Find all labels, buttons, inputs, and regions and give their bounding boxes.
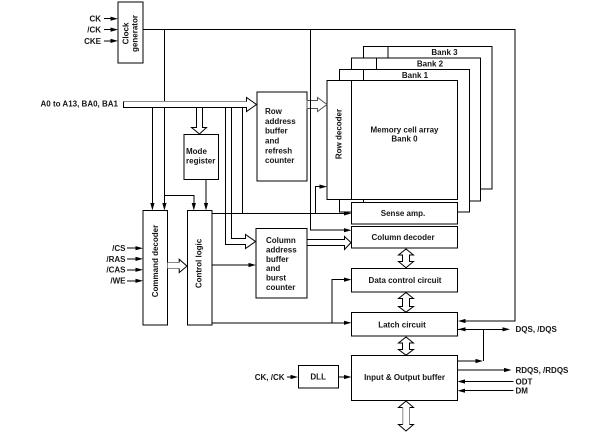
wire: mode register output to control logic	[204, 180, 208, 211]
svg-text:/CS: /CS	[112, 244, 126, 253]
svg-text:address: address	[266, 245, 297, 254]
svg-text:burst: burst	[266, 274, 286, 283]
svg-text:/CAS: /CAS	[106, 266, 126, 275]
svg-text:CK, /CK: CK, /CK	[255, 373, 285, 382]
svg-text:address: address	[265, 117, 296, 126]
bank 3 outline	[364, 47, 493, 190]
wire: CK input arrow	[104, 17, 118, 21]
svg-text:Column: Column	[266, 236, 296, 245]
wire: DQS bidirectional line at latch circuit	[458, 327, 510, 331]
svg-text:counter: counter	[266, 283, 295, 292]
svg-text:/RAS: /RAS	[106, 255, 126, 264]
wire: DLL to input output buffer	[339, 375, 352, 379]
svg-text:Row decoder: Row decoder	[335, 109, 344, 159]
bank 2 outline	[352, 58, 481, 201]
svg-text:Clock: Clock	[122, 22, 131, 44]
wire: address line down to command decoder	[150, 107, 154, 210]
svg-text:register: register	[186, 157, 215, 166]
bus: double open arrow data control circuit to latch circuit	[399, 293, 414, 313]
svg-text:generator: generator	[131, 15, 140, 52]
wire: control logic to sense amp with branch to row decoder	[212, 185, 352, 216]
svg-text:CK: CK	[89, 15, 101, 24]
svg-text:Control logic: Control logic	[195, 238, 204, 288]
bus: fat arrow column address buffer to column decoder	[307, 237, 351, 250]
svg-text:CKE: CKE	[84, 37, 102, 46]
svg-text:DLL: DLL	[310, 372, 326, 381]
svg-text:Input & Output buffer: Input & Output buffer	[364, 373, 445, 382]
block: command decoder	[143, 211, 168, 326]
wire: /WE input arrow	[127, 279, 143, 283]
svg-text:Column decoder: Column decoder	[371, 233, 434, 242]
wire: clock drop to command decoder (upper part above address bus)	[163, 29, 165, 101]
wire: branch from DQS line down to input output buffer	[458, 329, 484, 363]
block: memory cell array bank 0	[352, 81, 458, 200]
block: row decoder	[327, 81, 352, 200]
bus: address bus A0 to A13 BA0 BA1 (open arrow into row address buffer)	[124, 98, 257, 112]
block: latch circuit	[352, 313, 458, 337]
svg-text:Bank 0: Bank 0	[391, 134, 418, 143]
block: clock generator	[118, 2, 143, 63]
svg-text:Bank 1: Bank 1	[402, 71, 429, 80]
svg-text:/CK: /CK	[87, 26, 101, 35]
svg-text:Data control circuit: Data control circuit	[369, 276, 442, 285]
block: control logic	[188, 211, 213, 326]
svg-text:RDQS, /RDQS: RDQS, /RDQS	[516, 366, 570, 375]
block: mode register	[184, 135, 219, 180]
svg-text:buffer: buffer	[266, 255, 289, 264]
wire: address drop joining control logic to sense amp line	[241, 107, 243, 213]
block: DLL	[299, 366, 339, 389]
svg-text:buffer: buffer	[265, 127, 288, 136]
svg-text:/WE: /WE	[110, 277, 126, 286]
wire: CK /CK input to DLL	[287, 375, 298, 379]
wire: DM input arrow	[458, 389, 514, 393]
wire: /CK input arrow	[104, 28, 118, 32]
svg-text:Memory cell array: Memory cell array	[370, 125, 439, 134]
wire: control logic bottom output to data control circuit and latch circuit	[212, 278, 352, 325]
bus: fat arrow from address bus down into mode register	[192, 108, 207, 135]
svg-text:and: and	[266, 264, 280, 273]
bus: double open arrow column decoder to data control circuit	[399, 249, 414, 268]
svg-text:and: and	[265, 137, 279, 146]
svg-text:counter: counter	[265, 156, 294, 165]
svg-text:ODT: ODT	[516, 377, 533, 386]
block: data control circuit	[352, 269, 458, 293]
wire: /RAS input arrow	[127, 257, 143, 261]
block: sense amp	[352, 203, 458, 225]
wire: /CS input arrow	[127, 246, 143, 250]
svg-text:DQS, /DQS: DQS, /DQS	[516, 325, 558, 334]
wire: RDQS output arrow	[458, 368, 512, 372]
block: input and output buffer	[352, 356, 458, 401]
svg-text:Bank 3: Bank 3	[431, 48, 458, 57]
wire: clock drop to command decoder (below bus) with branch to control logic	[162, 107, 196, 210]
bus: fat arrow command decoder to control logic	[168, 259, 188, 272]
bus: fat arrow from row address buffer to row decoder	[307, 98, 327, 112]
svg-text:DM: DM	[516, 387, 529, 396]
block: column address buffer and burst counter	[256, 229, 307, 299]
wire: CKE input arrow	[104, 39, 118, 43]
wire: /CAS input arrow	[127, 268, 143, 272]
bus: address lines bend into column address buffer (open bus arrow)	[226, 108, 256, 249]
wire: ODT input arrow	[458, 379, 514, 383]
svg-text:Command decoder: Command decoder	[151, 225, 160, 297]
wire: control logic to column address buffer	[212, 263, 256, 267]
wire: clock line from clock generator around right side to latch circuit	[143, 29, 515, 323]
svg-text:Bank 2: Bank 2	[417, 60, 444, 69]
svg-text:Mode: Mode	[186, 147, 207, 156]
svg-text:Row: Row	[265, 107, 283, 116]
wire: clock drop to column decoder	[311, 29, 352, 232]
bus: double open arrow latch circuit to input output buffer	[399, 337, 414, 355]
bus: big double open arrow below input output buffer	[399, 401, 414, 431]
svg-text:refresh: refresh	[265, 146, 292, 155]
svg-text:Sense amp.: Sense amp.	[381, 209, 425, 218]
block: row address buffer and refresh counter	[257, 92, 307, 181]
block: column decoder	[352, 227, 458, 249]
bank 1 outline	[340, 70, 470, 213]
svg-text:A0 to A13, BA0, BA1: A0 to A13, BA0, BA1	[41, 100, 119, 109]
svg-text:Latch circuit: Latch circuit	[378, 320, 426, 329]
